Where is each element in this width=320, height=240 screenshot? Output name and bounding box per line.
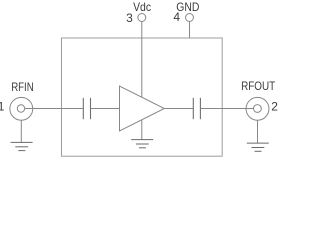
svg-text:4: 4 xyxy=(173,10,180,24)
svg-text:Vdc: Vdc xyxy=(133,0,151,14)
ground under amplifier U1 xyxy=(131,140,153,148)
port P1 RFIN coax symbol xyxy=(10,97,33,120)
pin 3 circle xyxy=(138,14,146,22)
wire GND pin 4 to box xyxy=(189,22,191,39)
wire P1 to capacitor C1 xyxy=(25,108,84,110)
wire amplifier to ground xyxy=(141,120,143,140)
svg-text:RFIN: RFIN xyxy=(11,80,34,94)
ground under P1 xyxy=(11,142,33,150)
svg-text:1: 1 xyxy=(0,100,5,114)
wire amplifier output to capacitor C2 xyxy=(164,108,193,110)
svg-text:3: 3 xyxy=(126,11,133,25)
capacitor C1 xyxy=(83,98,90,119)
wire P1 to ground xyxy=(20,120,22,142)
svg-text:RFOUT: RFOUT xyxy=(241,79,276,93)
ground under P2 xyxy=(247,143,269,151)
wire C2 to port P2 xyxy=(200,108,253,110)
svg-text:2: 2 xyxy=(271,100,278,114)
port P2 RFOUT coax symbol xyxy=(246,97,269,120)
wire Vdc pin 3 to amplifier xyxy=(141,22,143,98)
wire C1 to amplifier input xyxy=(91,108,120,110)
subcircuit box xyxy=(62,38,223,156)
pin 4 circle xyxy=(186,14,194,22)
amplifier U1 triangle xyxy=(120,86,165,131)
wire P2 to ground xyxy=(257,120,259,143)
capacitor C2 xyxy=(193,98,200,119)
